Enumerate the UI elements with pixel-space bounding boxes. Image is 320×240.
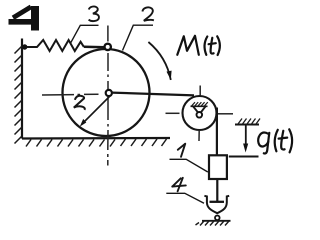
wall [21,39,23,139]
attachment eye at drum top [105,44,111,50]
rope pulley to block [216,108,218,156]
radius arrow inside drum [83,96,111,124]
floor hatching [26,139,167,147]
drum vertical centerline [107,26,109,166]
pulley support hatched bar [191,105,208,107]
problem number 4 [9,6,36,31]
leader line 3 [71,25,99,43]
ceiling support for q(t) [235,124,259,126]
label 1 [178,144,185,157]
damper foot pin [215,216,220,221]
q reference line [229,156,259,158]
pulley horizontal centerline [166,112,234,115]
wall hatching [15,46,23,144]
radius label r (handwritten z-like glyph) [74,96,85,110]
drum hub pin [106,90,112,96]
label M(t) [177,36,220,55]
pulley vertical centerline [199,86,200,142]
spring 3 [27,40,84,51]
block 1 [209,155,227,179]
drum horizontal centerline [42,93,99,96]
leader line 4 [166,193,204,203]
floor [22,137,170,140]
wire spring-to-drum [84,46,105,49]
leader line 1 [170,159,208,172]
q(t) arrow [245,125,247,147]
ground under damper [202,220,231,222]
drum 2 (wheel) [63,49,150,136]
damper 4 cup [204,196,229,213]
label 3 [89,6,99,21]
leader line 2 [123,25,154,50]
label q(t) [258,129,292,153]
damper piston [210,201,225,203]
rod block to damper [216,179,218,202]
pulley support legs [193,107,198,113]
spring anchor pin on wall [22,44,27,49]
moment arc M(t) [148,42,170,80]
label 4 [172,178,186,192]
rope drum hub to pulley [112,93,194,96]
pulley pin [197,112,203,118]
label 2 [143,7,154,20]
pulley [183,96,217,130]
